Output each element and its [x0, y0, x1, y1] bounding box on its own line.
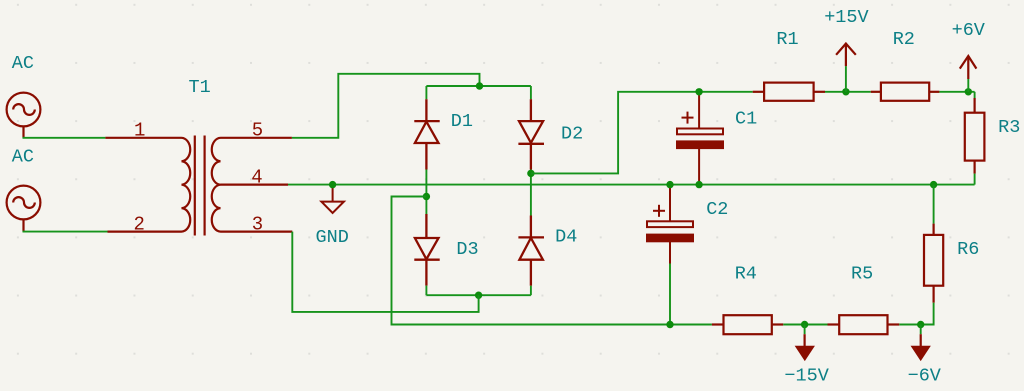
wire R3 bottom to rail — [974, 174, 976, 185]
transformer T1 — [105, 136, 292, 236]
resistor R2 — [871, 83, 940, 101]
resistor R4 — [712, 315, 783, 334]
ground — [321, 185, 344, 213]
wire D2 cathode down to D4 — [530, 170, 532, 216]
node +15V junction — [842, 88, 849, 95]
secondary winding — [212, 138, 221, 232]
AC source 2 — [7, 186, 41, 232]
power +6V — [960, 56, 977, 79]
svg-text:R5: R5 — [851, 264, 873, 285]
svg-text:R4: R4 — [735, 264, 757, 285]
svg-text:R1: R1 — [776, 29, 798, 50]
resistor R5 — [828, 315, 900, 334]
node C1 bottom — [695, 181, 702, 188]
wire GND rail (pin 4 net) — [288, 184, 975, 186]
diode D4 — [518, 216, 544, 286]
node C2 top — [666, 181, 673, 188]
node +6V junction — [965, 88, 972, 95]
svg-text:GND: GND — [316, 227, 349, 248]
svg-text:5: 5 — [252, 120, 263, 142]
power -6V — [913, 334, 929, 359]
power -15V — [797, 334, 813, 359]
node -6V junction — [917, 321, 924, 328]
capacitor C1 — [677, 92, 723, 185]
svg-text:AC: AC — [12, 146, 34, 167]
resistor R6 — [924, 224, 943, 303]
node bridge bottom junction — [475, 292, 482, 299]
svg-text:R6: R6 — [957, 239, 979, 260]
pin 4 — [221, 184, 289, 186]
node bridge top junction — [476, 82, 483, 89]
node C1 top — [695, 88, 702, 95]
svg-text:R2: R2 — [893, 29, 915, 50]
AC source 1 — [7, 93, 41, 138]
wire negative rail right end — [921, 324, 934, 326]
wire -15V stub — [804, 325, 806, 335]
node -15V junction — [801, 321, 808, 328]
power +15V — [836, 44, 856, 67]
svg-text:C1: C1 — [735, 108, 757, 129]
diode D3 — [414, 214, 439, 286]
wire R1 to R2 — [825, 91, 871, 93]
wire R3 top connection — [974, 92, 976, 98]
resistor R1 — [753, 83, 825, 101]
wire R5 to R6 — [899, 324, 933, 326]
wire C2 bottom to negative rail — [669, 264, 671, 325]
svg-text:AC: AC — [12, 53, 34, 74]
svg-text:+6V: +6V — [952, 20, 985, 41]
svg-text:−6V: −6V — [908, 365, 941, 386]
svg-text:4: 4 — [251, 167, 262, 189]
svg-text:2: 2 — [134, 214, 145, 236]
wire top rail to D1 — [425, 86, 427, 99]
svg-text:D2: D2 — [561, 124, 583, 145]
wire D3 to bottom rail — [425, 286, 427, 296]
node GND junction — [329, 181, 336, 188]
wire R6 bottom to negative rail — [933, 303, 935, 326]
wire D4 to bottom rail — [530, 286, 532, 296]
svg-text:D4: D4 — [555, 227, 577, 248]
wire top rail to D2 — [530, 86, 532, 99]
pin 2 — [108, 231, 182, 233]
wire +15V stub — [845, 66, 847, 92]
svg-text:T1: T1 — [189, 77, 211, 98]
node C2 bottom — [666, 321, 673, 328]
svg-text:D1: D1 — [451, 111, 473, 132]
wire AC1 to T1 pin 1 — [23, 137, 106, 139]
core — [194, 136, 196, 236]
svg-text:+15V: +15V — [824, 7, 868, 28]
node D2 output junction — [527, 170, 534, 177]
svg-text:C2: C2 — [706, 199, 728, 220]
wire +6V stub — [967, 79, 969, 92]
wire bridge top rail — [426, 85, 531, 87]
wire AC2 to T1 pin 2 — [23, 231, 108, 233]
pin 5 — [221, 137, 292, 139]
svg-text:3: 3 — [252, 213, 263, 235]
capacitor C2 — [647, 185, 693, 264]
svg-text:D3: D3 — [456, 239, 478, 260]
svg-text:R3: R3 — [998, 117, 1020, 138]
wire bridge bottom rail — [426, 294, 531, 296]
node D1-D3 junction — [423, 193, 430, 200]
pin 1 — [105, 137, 181, 139]
wire D2 output to C1 rail — [531, 92, 753, 174]
pin 3 — [221, 231, 293, 233]
wire R4 to R5 — [783, 324, 827, 326]
wire -6V stub — [920, 325, 922, 335]
wire pin3 riser to bridge bottom — [292, 232, 478, 312]
wire D1 anode through GND rail to D3 — [425, 170, 427, 215]
node R6 rail junction — [930, 181, 937, 188]
wire R2 to R3 — [939, 91, 974, 93]
diode D2 — [518, 99, 544, 169]
svg-text:−15V: −15V — [784, 365, 828, 386]
resistor R3 — [965, 98, 985, 174]
svg-text:1: 1 — [134, 120, 145, 142]
wire rail to R6 — [933, 185, 935, 224]
wire negative output branch — [392, 197, 712, 325]
wire pin5 to bridge top — [292, 74, 480, 138]
primary winding — [182, 138, 191, 232]
diode D1 — [414, 99, 439, 169]
